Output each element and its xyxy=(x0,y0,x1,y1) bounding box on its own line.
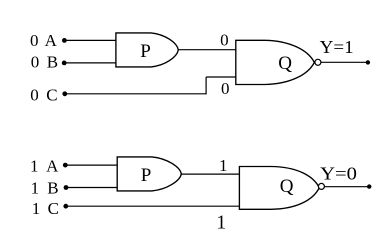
svg-text:1: 1 xyxy=(219,156,228,175)
node A (input terminal dot, bottom circuit) xyxy=(63,163,68,168)
svg-text:B: B xyxy=(47,178,58,197)
svg-text:Y=0: Y=0 xyxy=(320,164,357,184)
wire C into NOR gate Q lower input xyxy=(206,76,236,78)
svg-text:B: B xyxy=(47,53,58,72)
input label 1 A xyxy=(30,157,59,176)
nor-gate Q (top circuit, flat-back OR body) xyxy=(236,40,314,84)
svg-text:Q: Q xyxy=(280,176,294,197)
and-gate P (top circuit) xyxy=(116,33,178,67)
svg-text:A: A xyxy=(46,157,59,176)
inverter bubble on Q output (bottom) xyxy=(318,183,324,189)
svg-text:0: 0 xyxy=(31,53,40,72)
svg-text:C: C xyxy=(48,199,59,218)
node A (input terminal dot, top circuit) xyxy=(62,38,67,43)
svg-text:1: 1 xyxy=(31,178,39,197)
wire C horizontal run xyxy=(65,93,206,95)
wire C straight into NOR gate Q lower input (bottom) xyxy=(66,205,240,207)
svg-text:0: 0 xyxy=(30,31,39,50)
node C (input terminal dot, bottom circuit) xyxy=(63,204,68,209)
node Y output terminal dot (top) xyxy=(366,60,370,64)
node Y output terminal dot (bottom) xyxy=(367,184,371,188)
svg-text:1: 1 xyxy=(30,157,39,176)
svg-text:Y=1: Y=1 xyxy=(320,37,354,57)
svg-text:P: P xyxy=(141,165,152,186)
wire A to AND gate P (bottom) xyxy=(65,164,117,166)
wire B to AND gate P (bottom) xyxy=(66,187,117,189)
wire Q output (top) xyxy=(321,61,368,63)
svg-text:P: P xyxy=(140,41,151,62)
node C (input terminal dot, top circuit) xyxy=(62,91,67,96)
svg-text:0: 0 xyxy=(221,79,230,98)
input label 1 C xyxy=(32,199,59,218)
wire C vertical step up xyxy=(205,77,207,94)
svg-text:0: 0 xyxy=(30,85,39,104)
wire Q output (bottom) xyxy=(324,186,369,188)
node B (input terminal dot, bottom circuit) xyxy=(64,185,69,190)
svg-text:0: 0 xyxy=(220,31,229,50)
and-gate P (bottom circuit) xyxy=(117,157,181,191)
inverter bubble on Q output (top) xyxy=(315,59,321,65)
input label 0 B xyxy=(31,53,58,72)
node B (input terminal dot, top circuit) xyxy=(62,61,67,66)
svg-text:1: 1 xyxy=(32,199,41,218)
svg-text:1: 1 xyxy=(216,212,226,233)
wire A to AND gate P xyxy=(64,39,116,41)
svg-text:Q: Q xyxy=(278,53,292,74)
svg-text:A: A xyxy=(45,31,58,50)
input label 0 C xyxy=(30,85,57,104)
nor-gate Q (bottom circuit, flat-back OR body) xyxy=(239,167,319,210)
svg-text:C: C xyxy=(46,85,57,104)
wire B to AND gate P xyxy=(64,62,116,64)
input label 0 A xyxy=(30,31,58,50)
wire P output to NOR gate Q upper input (bottom) xyxy=(181,173,240,175)
input label 1 B xyxy=(31,178,59,197)
wire P output to NOR gate Q upper input xyxy=(178,49,236,51)
